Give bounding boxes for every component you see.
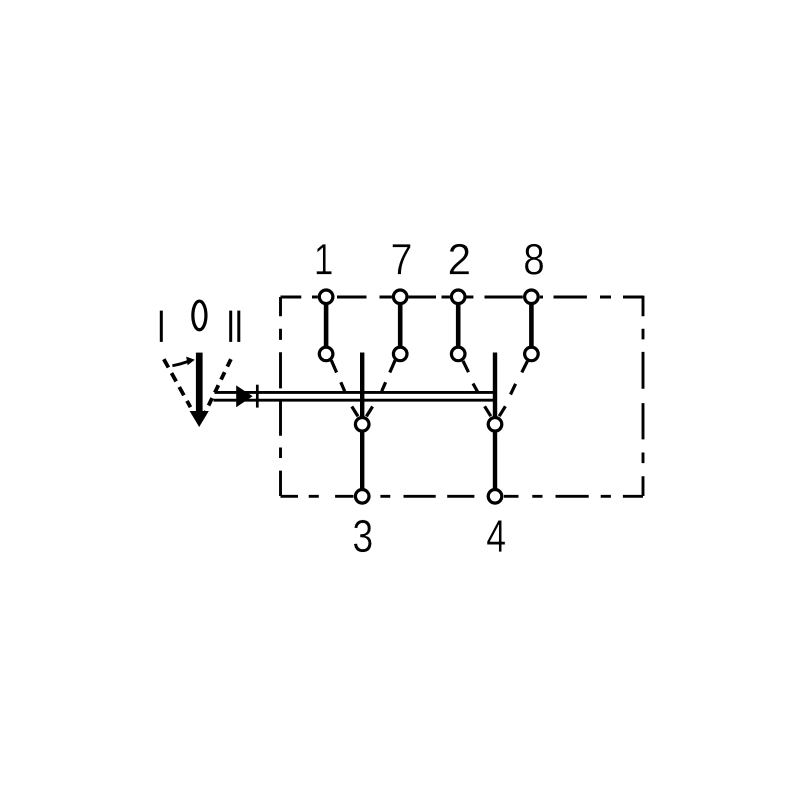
pole 4 mover wire lower: [493, 431, 497, 491]
enclosure border left edge: [279, 297, 282, 496]
label 7: [393, 244, 411, 274]
terminal 1 lower contact circle: [319, 347, 333, 361]
lever travel dashed line to II: [204, 359, 231, 416]
terminal 8 lower contact circle: [525, 347, 539, 361]
terminal 8 top contact circle: [525, 290, 539, 304]
label 2: [450, 244, 469, 275]
label 8: [525, 244, 543, 275]
terminal 2 engagement dash: [473, 384, 478, 393]
terminal 4 circle: [488, 490, 502, 504]
lever position mark II left bar: [229, 311, 232, 342]
lever position mark II right bar: [237, 311, 240, 342]
terminal 8 link wire: [529, 300, 534, 350]
lever shaft (position 0): [196, 353, 203, 412]
terminal 1 link wire: [324, 300, 329, 350]
terminal 2 link wire: [456, 300, 461, 350]
pole 3 mover contact prong left: [352, 407, 358, 417]
pole 4 mover contact prong right: [499, 406, 505, 416]
terminal 1 engagement dash: [341, 382, 345, 391]
terminal 1 contact blade: [331, 360, 336, 372]
terminal 7 link wire: [398, 300, 403, 350]
enclosure border top edge: [281, 296, 644, 299]
terminal 8 contact blade: [522, 361, 528, 372]
lever travel dashed line to I: [164, 359, 191, 407]
terminal 8 engagement dash: [511, 384, 516, 395]
actuator bar upper line: [215, 391, 496, 394]
pole 3 mover contact circle: [355, 418, 369, 432]
label 3: [354, 520, 372, 553]
enclosure border right edge: [642, 296, 645, 496]
terminal 7 engagement dash: [382, 382, 386, 391]
terminal 2 top contact circle: [451, 290, 465, 304]
lever arrowhead: [190, 411, 209, 427]
pole 4 mover contact circle: [488, 418, 502, 432]
terminal 3 circle: [355, 490, 369, 504]
lever position mark I: [160, 311, 163, 342]
actuator bar lower line: [214, 399, 496, 402]
terminal 7 top contact circle: [393, 290, 407, 304]
actuator drive arrowhead: [236, 385, 252, 407]
label 0 (ellipse glyph): [193, 301, 206, 330]
pole 3 mover contact prong right: [366, 407, 372, 417]
label 4: [487, 520, 505, 552]
terminal 1 top contact circle: [319, 290, 333, 304]
actuation direction arrow shaft: [172, 362, 188, 366]
actuator bar end tick: [256, 385, 259, 408]
pole 4 mover contact prong left: [485, 406, 491, 416]
terminal 2 lower contact circle: [451, 347, 465, 361]
label 1: [317, 244, 332, 274]
pole 4 mover wire upper: [493, 353, 497, 420]
terminal 7 contact blade: [390, 360, 395, 372]
enclosure border bottom edge: [281, 495, 644, 498]
pole 3 mover wire upper: [360, 353, 364, 420]
terminal 7 lower contact circle: [393, 347, 407, 361]
pole 3 mover wire lower: [360, 431, 364, 491]
terminal 2 contact blade: [463, 361, 469, 372]
actuation direction arrow head: [186, 357, 195, 366]
